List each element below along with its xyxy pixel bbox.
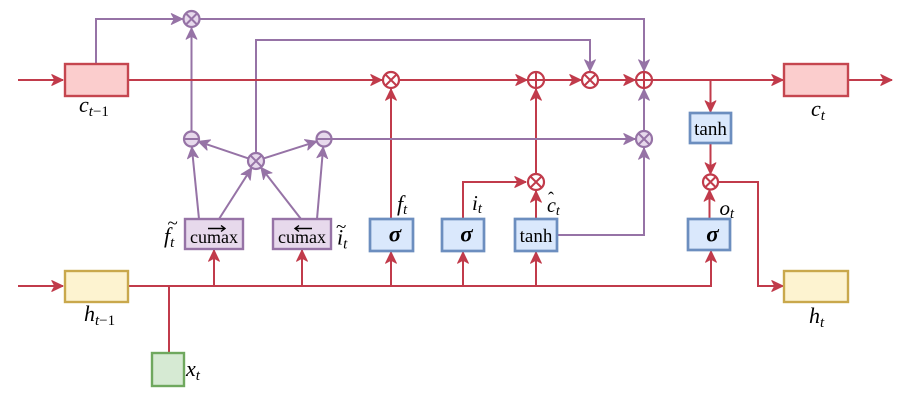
wire purple tanh1 right to otimes-right bbox=[557, 148, 644, 235]
node otimes-o bbox=[703, 175, 718, 190]
wire red otimes-o to h_t box bbox=[718, 182, 783, 286]
node otimes-right bbox=[636, 131, 652, 147]
svg-text:ht−1: ht−1 bbox=[84, 301, 115, 329]
node oplus-2 bbox=[636, 72, 652, 88]
svg-text:ˆ: ˆ bbox=[548, 189, 554, 209]
box x_t bbox=[152, 353, 184, 386]
svg-text:tanh: tanh bbox=[694, 119, 727, 140]
wire purple otimes-mid to ominus-1 bbox=[198, 141, 248, 158]
box cumax1 bbox=[185, 219, 243, 249]
wire red up to cumax1 bbox=[213, 250, 215, 286]
wire purple otimes-top output to oplus-2 bbox=[200, 19, 645, 71]
wire red sigma3 up to otimes-o bbox=[709, 190, 711, 219]
node otimes-mid bbox=[248, 153, 264, 169]
box tanh1 bbox=[515, 219, 557, 251]
wire purple ominus-2 right to otimes-right (drawn on top) bbox=[332, 138, 635, 140]
wire red input into h_{t-1} bbox=[18, 285, 63, 287]
box c_t bbox=[784, 64, 848, 96]
box c_{t-1} bbox=[65, 64, 128, 96]
box sigma3 bbox=[688, 219, 730, 250]
wire red oplus-2 to c_t box bbox=[652, 79, 783, 81]
wire purple cumax2 to otimes-mid bbox=[261, 167, 301, 219]
wire red bottom main line to sigma3 bbox=[128, 251, 711, 286]
wire red up to tanh1 bbox=[535, 252, 537, 286]
wire red input into c_{t-1} bbox=[18, 79, 63, 81]
node otimes-omega bbox=[582, 72, 598, 88]
box tanh2 bbox=[690, 113, 731, 143]
wire red branch down to tanh2 bbox=[710, 80, 712, 112]
svg-text:σ: σ bbox=[706, 222, 719, 247]
wire red c_{t-1} to otimes-f bbox=[128, 79, 382, 81]
wire purple cumax1 to otimes-mid bbox=[219, 168, 252, 219]
svg-text:σ: σ bbox=[389, 222, 402, 247]
svg-text:tanh: tanh bbox=[520, 226, 553, 247]
wire purple cumax1 to ominus-1 bbox=[192, 147, 199, 219]
wire red otimes-omega to oplus-2 bbox=[598, 79, 635, 81]
svg-text:σ: σ bbox=[460, 222, 473, 247]
box h_t bbox=[784, 271, 848, 302]
node otimes-ic bbox=[528, 174, 544, 190]
wire red down to x_t bbox=[168, 286, 170, 353]
wire red tanh1 up to otimes-ic bbox=[535, 191, 537, 219]
wire red oplus-1 to otimes-omega bbox=[544, 79, 581, 81]
wire red up to cumax2 bbox=[301, 250, 303, 286]
wire red sigma1 up to otimes-f bbox=[390, 89, 392, 219]
wire purple ominus-1 up to otimes-top bbox=[191, 28, 193, 131]
node otimes-f bbox=[383, 72, 399, 88]
svg-text:~: ~ bbox=[336, 217, 346, 238]
wire purple otimes-mid to ominus-2 bbox=[264, 141, 317, 158]
node otimes-top bbox=[184, 11, 200, 27]
box sigma1 bbox=[370, 219, 413, 251]
svg-text:cumax: cumax bbox=[278, 227, 326, 247]
svg-text:xt: xt bbox=[185, 356, 201, 384]
svg-text:it: it bbox=[472, 191, 483, 217]
wire purple c_{t-1} top branch to otimes-top bbox=[96, 19, 183, 64]
wire purple otimes-mid up and right to otimes-omega bbox=[256, 40, 590, 153]
box h_{t-1} bbox=[65, 271, 128, 302]
wire purple otimes-right up to oplus-2 bbox=[643, 89, 645, 131]
wire red c_t box to output bbox=[848, 79, 892, 81]
svg-text:ht: ht bbox=[809, 303, 825, 331]
node oplus-1 bbox=[528, 72, 544, 88]
wire red otimes-f to oplus-1 bbox=[399, 79, 527, 81]
svg-text:~: ~ bbox=[168, 213, 178, 234]
svg-text:ot: ot bbox=[720, 196, 736, 222]
node ominus-2 bbox=[317, 132, 332, 147]
wire red tanh2 to otimes-o bbox=[710, 143, 712, 174]
node ominus-1 bbox=[184, 132, 199, 147]
wire red up to sigma1 bbox=[390, 252, 392, 286]
svg-text:cumax: cumax bbox=[190, 227, 238, 247]
svg-text:ft: ft bbox=[397, 191, 408, 218]
wire purple cumax2 to ominus-2 bbox=[317, 147, 323, 219]
wire red up to sigma2 bbox=[462, 252, 464, 286]
svg-text:ct: ct bbox=[811, 96, 826, 124]
box sigma2 bbox=[442, 219, 484, 251]
wire red otimes-ic up to oplus-1 bbox=[535, 89, 537, 174]
wire red sigma2 up right to otimes-ic bbox=[463, 182, 526, 219]
box cumax2 bbox=[273, 219, 331, 249]
